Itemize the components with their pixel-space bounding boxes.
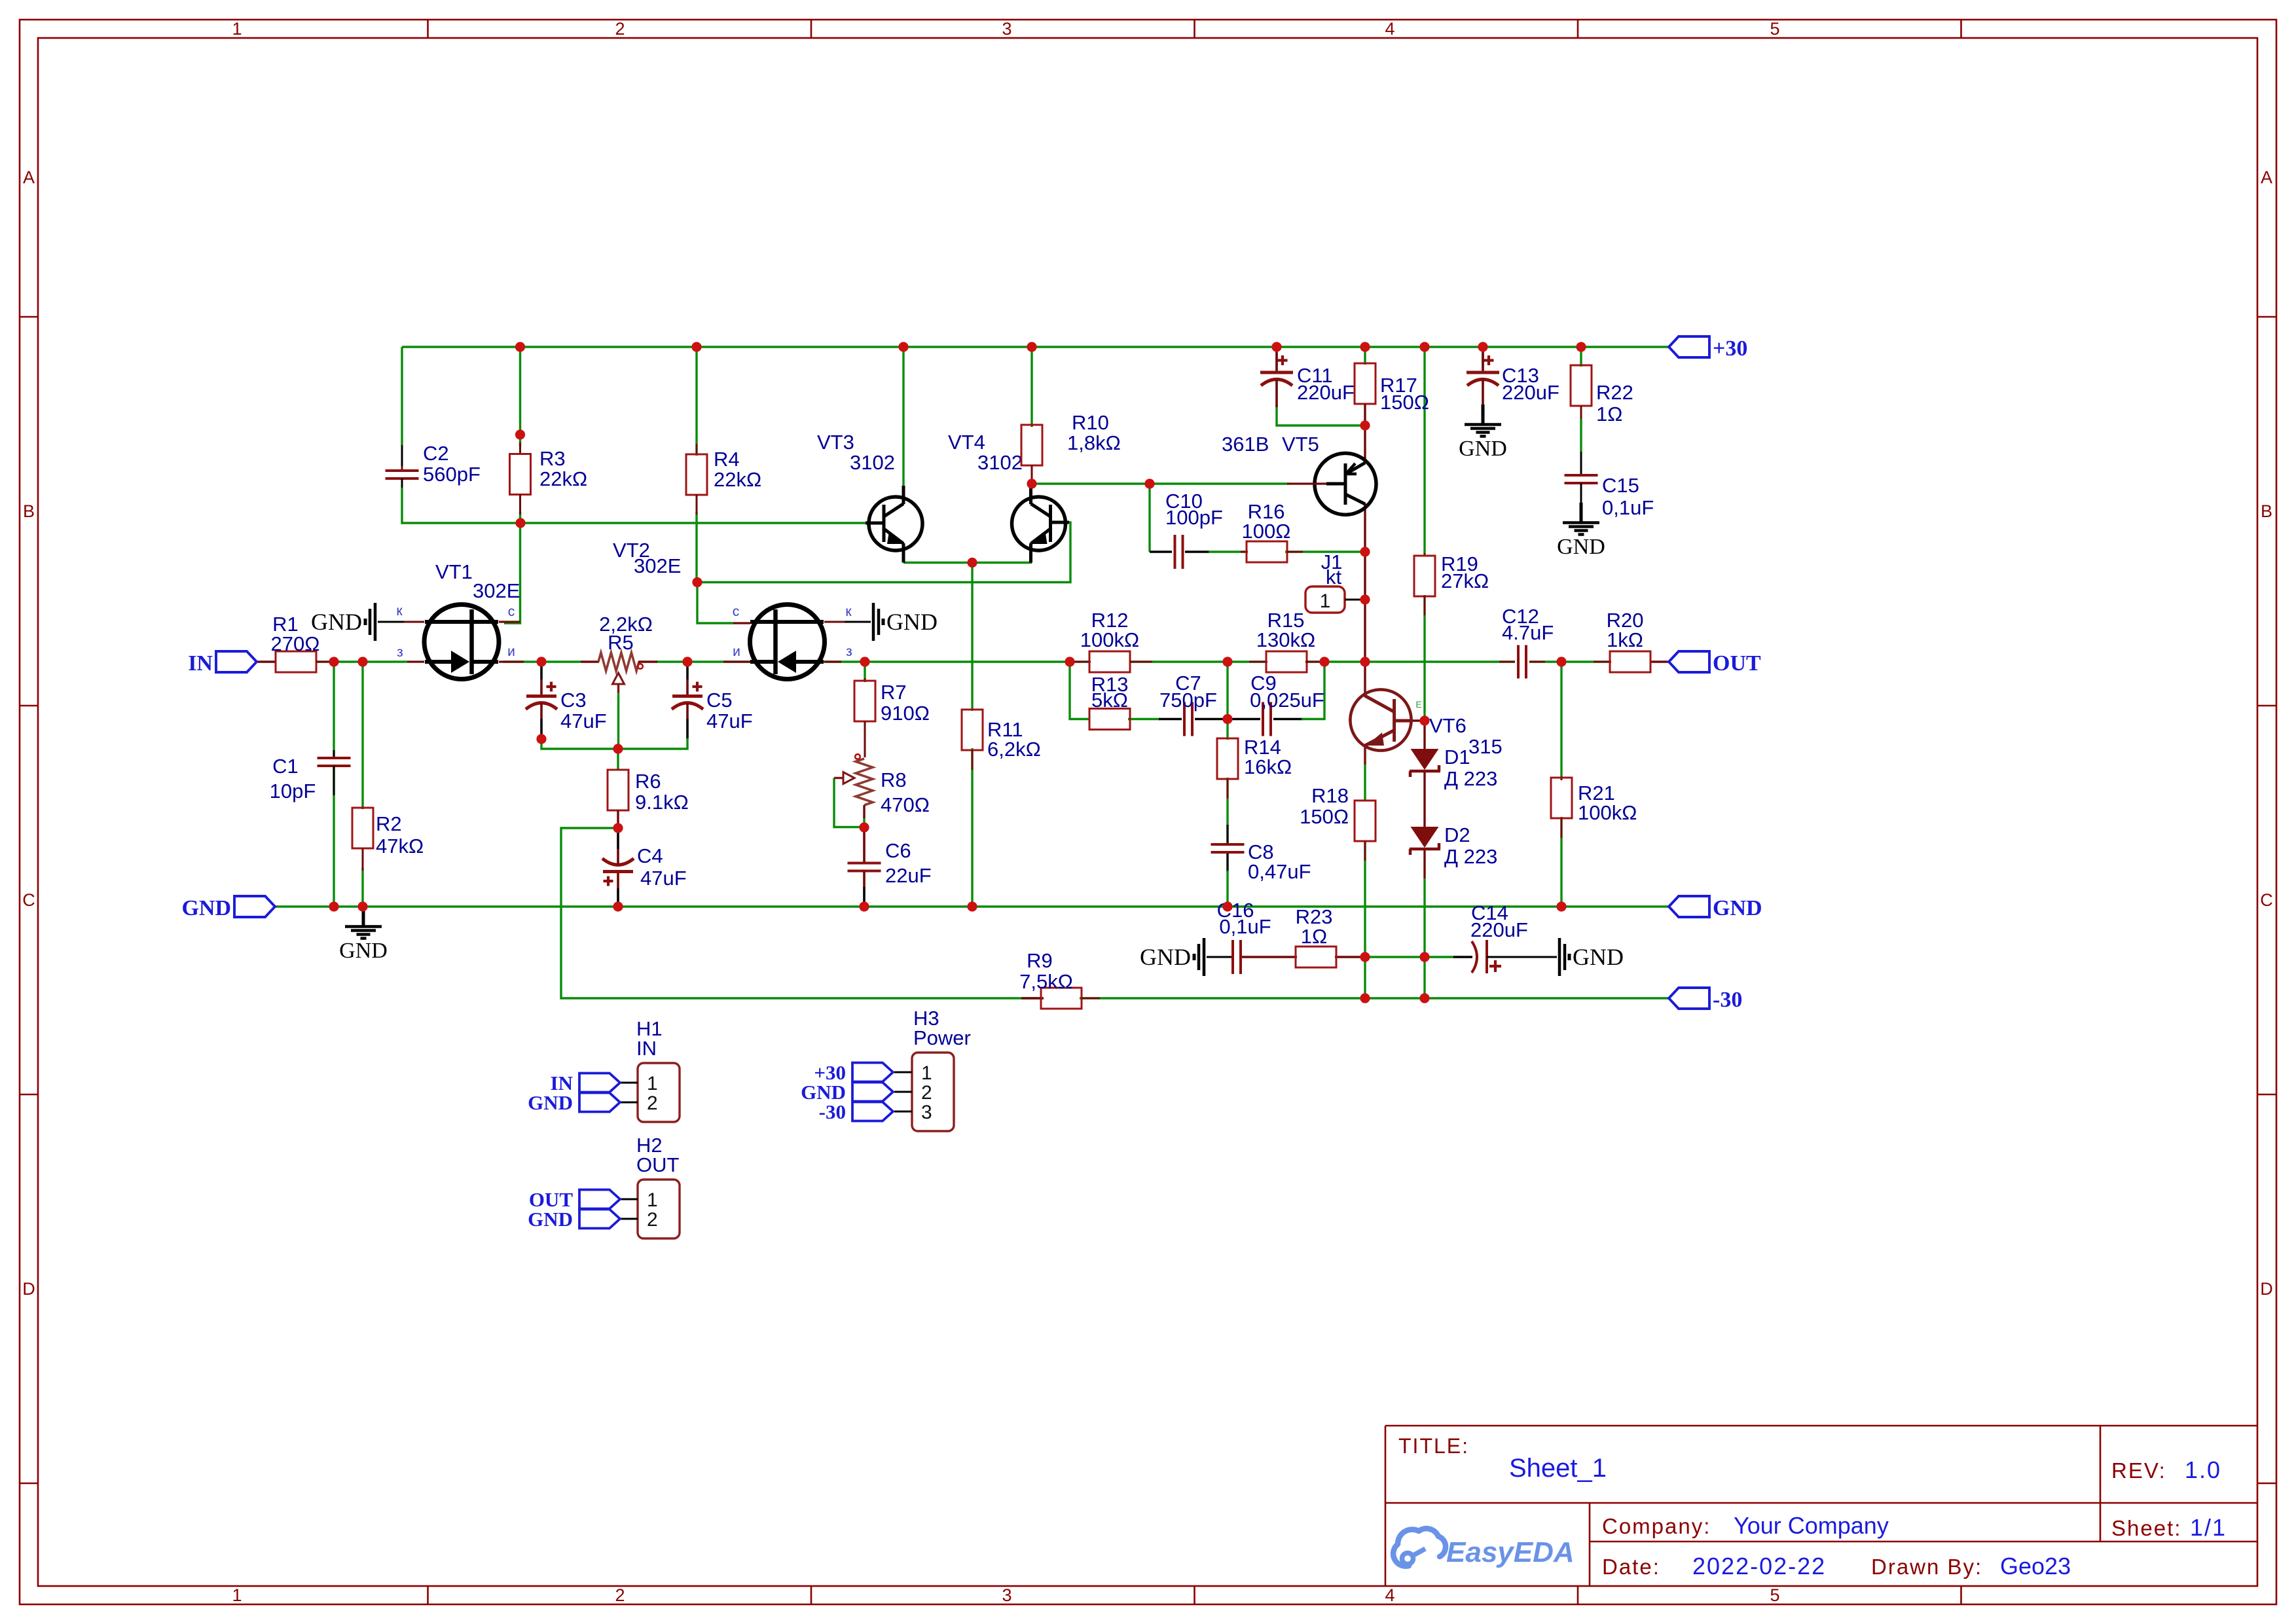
svg-text:C6: C6 [885, 839, 911, 862]
wire R22 to C15 [1580, 419, 1582, 452]
net flag IN [216, 651, 257, 672]
junction at (1950,530) [1271, 342, 1281, 352]
svg-text:3102: 3102 [850, 451, 895, 474]
svg-text:1: 1 [232, 1585, 242, 1605]
svg-text:C4: C4 [637, 844, 663, 867]
EasyEDA logo [1393, 1528, 1575, 1568]
port flag OUT of H2 [579, 1190, 620, 1209]
svg-text:Power: Power [913, 1026, 971, 1049]
svg-text:IN: IN [636, 1037, 657, 1060]
svg-text:4.7uF: 4.7uF [1502, 621, 1554, 644]
wire R21 top [1560, 662, 1562, 779]
svg-text:c: c [733, 604, 740, 619]
wire R6 bottom junction [617, 810, 619, 828]
port flag +30 of H3 [852, 1063, 893, 1082]
svg-text:GND: GND [339, 939, 388, 963]
capacitor C11 [1260, 352, 1355, 407]
svg-text:560pF: 560pF [423, 463, 481, 486]
capacitor C6 [848, 827, 932, 902]
junction at (1485,1385) [967, 901, 977, 911]
junction at (510,1385) [329, 901, 338, 911]
wire C5 bottom [618, 738, 687, 749]
wire C8 top black stub [1226, 825, 1228, 843]
junction at (554,1011) [357, 657, 367, 666]
svg-text:-30: -30 [1713, 988, 1742, 1012]
svg-text:1: 1 [1320, 590, 1331, 612]
capacitor C8 [1211, 840, 1311, 883]
wire D2 bottom pin [1423, 850, 1425, 878]
svg-text:R22: R22 [1596, 381, 1633, 404]
svg-text:и: и [507, 644, 515, 659]
wire VT4 collector to VT5 base [1032, 482, 1288, 484]
resistor R22 [1571, 365, 1633, 425]
svg-text:750pF: 750pF [1159, 689, 1217, 712]
transistor VT1 [396, 560, 524, 679]
ground symbol under C13 [1482, 405, 1485, 424]
svg-text:EasyEDA: EasyEDA [1446, 1536, 1575, 1568]
svg-text:C: C [2260, 890, 2273, 910]
svg-text:22uF: 22uF [885, 864, 932, 887]
port flag IN of H1 [579, 1074, 620, 1092]
svg-text:GND: GND [181, 896, 231, 920]
svg-text:c: c [508, 604, 515, 619]
junction at (794.5,530) [515, 342, 525, 352]
wire C8 bottom [1226, 871, 1228, 907]
svg-text:C: C [22, 890, 35, 910]
svg-text:и: и [733, 644, 740, 659]
capacitor C16 [1217, 899, 1271, 974]
junction at (2085,650) [1360, 420, 1370, 430]
wire R16 to VT5 collector [1285, 550, 1365, 552]
wire C1 bottom [333, 766, 335, 907]
junction at (1875,1098.5) [1222, 714, 1232, 724]
junction at (1875,1011) [1222, 657, 1232, 666]
ground flag at C14 [1531, 956, 1557, 958]
svg-text:3: 3 [921, 1102, 932, 1123]
wire VT2 gate segment [822, 660, 1089, 662]
wire C10 branch [1148, 484, 1150, 552]
svg-text:GND: GND [886, 609, 938, 635]
resistor R11 [962, 709, 1041, 770]
svg-text:A: A [2261, 168, 2272, 187]
wire VT1 source segment [503, 660, 581, 662]
junction at (1320,1264) [859, 822, 869, 832]
header H1 [638, 1063, 680, 1122]
svg-text:OUT: OUT [1713, 651, 1761, 676]
svg-text:3: 3 [1002, 19, 1011, 39]
net flag GND left [234, 896, 275, 917]
svg-text:5: 5 [1770, 1585, 1779, 1605]
junction at (944,1144) [613, 744, 623, 753]
wire VT5 emitter up [1364, 425, 1366, 463]
resistor R23 [1296, 905, 1336, 967]
svg-text:R8: R8 [881, 768, 907, 791]
svg-text:D1: D1 [1444, 746, 1470, 768]
wire R8 to C6 [863, 817, 865, 827]
resistor R6 [608, 770, 689, 825]
wire C11 bottom to R17 bottom [1277, 405, 1365, 425]
resistor R2 [352, 806, 424, 871]
capacitor C5 [672, 666, 753, 738]
junction at (1756,739) [1144, 478, 1154, 488]
svg-text:1: 1 [232, 19, 242, 39]
svg-text:5: 5 [1770, 19, 1779, 39]
junction at (1321,1011) [860, 657, 869, 666]
wire R21 bottom [1560, 817, 1562, 907]
junction at (2023,1011) [1319, 657, 1329, 666]
wire R17 top feed [1364, 347, 1366, 365]
wire R23 to C14 junction [1365, 956, 1425, 958]
svg-text:Your Company: Your Company [1734, 1512, 1889, 1539]
resistor R18 [1300, 784, 1376, 861]
wire R12 to R15 [1129, 660, 1267, 662]
junction at (2085,1462) [1360, 952, 1370, 962]
svg-text:1: 1 [647, 1189, 658, 1211]
svg-text:6,2kΩ: 6,2kΩ [987, 738, 1041, 761]
wire C13 top feed [1482, 347, 1484, 369]
wire R19 column [1423, 347, 1425, 554]
wire C11 top feed [1275, 347, 1277, 369]
wire GND rail [275, 905, 1669, 907]
svg-text:D: D [2260, 1279, 2273, 1299]
svg-text:220uF: 220uF [1297, 381, 1355, 404]
capacitor C9 [1250, 672, 1324, 736]
net flag -30 [1669, 988, 1709, 1009]
wire VT5 collector down [1364, 503, 1366, 662]
svg-text:1: 1 [647, 1073, 658, 1094]
junction at (1634,1011) [1065, 657, 1074, 666]
svg-text:2: 2 [921, 1082, 932, 1104]
resistor R15 [1249, 609, 1324, 672]
svg-text:D: D [22, 1279, 35, 1299]
svg-text:з: з [846, 644, 852, 659]
svg-text:Sheet_1: Sheet_1 [1509, 1454, 1607, 1483]
wire R19 bottom to VT6 base [1423, 595, 1425, 721]
svg-text:47uF: 47uF [560, 710, 607, 732]
svg-text:Д 223: Д 223 [1444, 845, 1497, 868]
junction at (2385,1011) [1556, 657, 1566, 666]
svg-text:0,47uF: 0,47uF [1248, 860, 1311, 883]
wire D2 bottom [1423, 878, 1425, 998]
wire R22 top feed [1580, 347, 1582, 367]
svg-text:C1: C1 [272, 755, 299, 778]
wire VT6 collector [1364, 662, 1366, 695]
svg-text:315: 315 [1468, 735, 1503, 758]
svg-text:1,8kΩ: 1,8kΩ [1067, 431, 1121, 454]
resistor R12 [1070, 609, 1152, 672]
wire C9 right black [1273, 718, 1303, 720]
wire +30 rail [402, 346, 1669, 348]
wire R4 top feed [695, 347, 697, 456]
svg-text:OUT: OUT [636, 1153, 680, 1176]
ground symbol under C15 [1580, 503, 1583, 522]
svg-text:470Ω: 470Ω [881, 793, 930, 816]
svg-text:GND: GND [1557, 535, 1605, 559]
svg-text:130kΩ: 130kΩ [1256, 628, 1315, 651]
junction at (2415,530) [1576, 342, 1586, 352]
wire R18 bottom [1364, 841, 1366, 998]
svg-text:10pF: 10pF [270, 780, 316, 803]
junction at (510,1011) [329, 657, 338, 666]
capacitor C2 [386, 442, 481, 488]
resistor R9 [1019, 949, 1100, 1009]
svg-text:Drawn By:: Drawn By: [1871, 1555, 1982, 1579]
potentiometer R5 [581, 613, 657, 693]
svg-text:B: B [2261, 501, 2272, 521]
svg-text:E: E [1415, 699, 1421, 710]
capacitor C15 [1565, 452, 1654, 519]
wire C1 top feed [333, 662, 335, 759]
junction at (1380,530) [898, 342, 908, 352]
svg-text:100Ω: 100Ω [1242, 520, 1291, 543]
capacitor C10 [1165, 490, 1223, 569]
svg-text:220uF: 220uF [1470, 918, 1528, 941]
svg-text:270Ω: 270Ω [271, 632, 320, 655]
svg-text:з: з [397, 645, 403, 660]
wire R13 right [1128, 718, 1160, 720]
svg-text:1Ω: 1Ω [1301, 925, 1327, 948]
svg-text:3: 3 [1002, 1585, 1011, 1605]
junction at (1065,889.5) [692, 577, 702, 587]
capacitor C7 [1159, 672, 1217, 736]
junction at (1064,530) [691, 342, 701, 352]
wire R2 bottom [361, 868, 363, 907]
svg-text:Date:: Date: [1602, 1555, 1660, 1579]
svg-text:GND: GND [528, 1091, 573, 1114]
svg-text:VT1: VT1 [435, 560, 473, 583]
wire VT3 collector feed [902, 347, 904, 486]
wire R2 top feed [361, 662, 363, 809]
wire R9 left pin [1021, 997, 1044, 999]
title block text [1398, 1434, 2227, 1579]
svg-text:910Ω: 910Ω [881, 702, 930, 725]
wire R4 bottom [695, 512, 697, 583]
svg-text:A: A [23, 168, 35, 187]
capacitor C13 [1467, 352, 1559, 407]
svg-text:1: 1 [921, 1062, 932, 1084]
svg-text:GND: GND [1713, 896, 1762, 920]
svg-text:kt: kt [1326, 566, 1342, 588]
svg-text:R4: R4 [714, 448, 740, 471]
junction at (2176,1101) [1419, 715, 1429, 725]
net flag OUT [1669, 651, 1709, 672]
svg-text:C2: C2 [423, 442, 449, 465]
port flag GND of H2 [579, 1210, 620, 1229]
diode D1 [1410, 746, 1497, 790]
svg-text:GND: GND [311, 609, 362, 635]
wire feedback loop to -30 [561, 828, 1042, 998]
svg-text:2: 2 [615, 19, 625, 39]
svg-text:100kΩ: 100kΩ [1578, 801, 1637, 824]
wire VT6 base link [1412, 719, 1425, 721]
wire C10 left black [1150, 550, 1172, 552]
header H3 [912, 1053, 954, 1131]
wire R15 to C12 [1305, 660, 1515, 662]
svg-text:GND: GND [1140, 944, 1191, 970]
ground symbol under R2 [362, 907, 365, 926]
net flag GND right [1669, 896, 1709, 917]
svg-text:5kΩ: 5kΩ [1091, 689, 1128, 712]
wire C2 bottom to VT3 base [402, 488, 866, 523]
svg-text:C3: C3 [560, 689, 587, 712]
trimmer R8 [834, 754, 930, 818]
junction at (2085,1011) [1360, 657, 1370, 666]
transistor VT2 [613, 539, 852, 679]
junction at (827,1129) [536, 734, 546, 744]
svg-text:47kΩ: 47kΩ [376, 835, 424, 857]
svg-text:100pF: 100pF [1165, 506, 1223, 529]
diode D2 [1410, 823, 1497, 868]
svg-text:Geo23: Geo23 [2000, 1553, 2071, 1579]
capacitor C12 [1499, 605, 1554, 679]
svg-text:100kΩ: 100kΩ [1080, 628, 1139, 651]
svg-text:Sheet:: Sheet: [2111, 1516, 2181, 1540]
junction at (2085,1525) [1360, 993, 1370, 1003]
wire center junction to C9 [1228, 718, 1260, 720]
junction at (2085,843) [1360, 547, 1370, 556]
svg-text:4: 4 [1385, 1585, 1394, 1605]
wire R11 top [971, 563, 973, 711]
svg-text:Д 223: Д 223 [1444, 767, 1497, 790]
junction at (2176,1525) [1419, 993, 1429, 1003]
ground flag at C16 [1207, 956, 1233, 958]
resistor R14 [1217, 736, 1292, 799]
junction at (2085,916) [1360, 594, 1370, 604]
svg-text:TITLE:: TITLE: [1398, 1434, 1469, 1458]
svg-text:27kΩ: 27kΩ [1441, 569, 1489, 592]
svg-text:IN: IN [188, 651, 213, 676]
svg-text:B: B [23, 501, 35, 521]
svg-text:220uF: 220uF [1502, 381, 1559, 404]
svg-text:302E: 302E [473, 579, 520, 602]
wire VT2 drain riser [697, 583, 733, 624]
junction at (944,1385) [613, 901, 623, 911]
wire R10 top feed [1030, 347, 1032, 426]
svg-text:VT3: VT3 [817, 431, 854, 454]
svg-text:2: 2 [647, 1209, 658, 1231]
wire C9 to R15 right column [1302, 662, 1324, 719]
transistor VT4 [948, 431, 1069, 563]
junction at (944,1265) [613, 823, 623, 833]
wire C14 left [1425, 956, 1455, 958]
wire IN to VT1 gate [316, 660, 407, 662]
svg-text:22kΩ: 22kΩ [539, 467, 587, 490]
svg-text:GND: GND [1573, 944, 1624, 970]
wire C2 top feed [401, 347, 403, 445]
wire C8 bottom black stub [1226, 854, 1228, 872]
svg-text:R9: R9 [1027, 949, 1053, 972]
svg-text:2022-02-22: 2022-02-22 [1692, 1553, 1826, 1579]
wire C12 to R20 [1529, 660, 1611, 662]
svg-text:22kΩ: 22kΩ [714, 468, 761, 491]
resistor R19 [1414, 552, 1489, 615]
svg-text:3102: 3102 [977, 451, 1023, 474]
svg-text:1/1: 1/1 [2190, 1514, 2227, 1541]
resistor R17 [1355, 363, 1429, 424]
svg-text:R3: R3 [539, 447, 566, 470]
wire C10 to R16 [1209, 550, 1247, 552]
resistor R7 [854, 678, 930, 757]
wire R23 line C16 side [1242, 956, 1297, 958]
junction at (1320,1385) [859, 901, 869, 911]
wire VT6 emitter to R18 [1364, 745, 1366, 801]
junction at (1485,859.5) [967, 558, 977, 568]
svg-text:к: к [845, 604, 852, 619]
resistor R4 [686, 444, 761, 514]
connection pad J1 [1305, 550, 1365, 613]
svg-text:+30: +30 [1713, 336, 1747, 361]
junction at (2176,530) [1419, 342, 1429, 352]
junction at (2265,530) [1478, 342, 1487, 352]
wire R8 wiper loop [834, 778, 864, 827]
svg-text:R2: R2 [376, 812, 402, 835]
svg-text:361B: 361B [1222, 433, 1269, 456]
svg-text:16kΩ: 16kΩ [1244, 755, 1292, 778]
svg-text:0,1uF: 0,1uF [1219, 915, 1271, 938]
svg-text:7,5kΩ: 7,5kΩ [1019, 970, 1073, 993]
svg-text:REV:: REV: [2111, 1458, 2166, 1483]
junction at (1576,739) [1027, 478, 1036, 488]
svg-text:0,1uF: 0,1uF [1602, 496, 1654, 519]
svg-text:GND: GND [528, 1208, 573, 1231]
svg-text:R6: R6 [635, 770, 661, 793]
svg-text:9.1kΩ: 9.1kΩ [635, 791, 689, 814]
wire C3 bottom [541, 738, 618, 749]
transistor VT5 [1222, 433, 1376, 514]
svg-text:4: 4 [1385, 19, 1394, 39]
svg-text:Company:: Company: [1602, 1514, 1711, 1538]
svg-text:0,025uF: 0,025uF [1250, 689, 1324, 712]
svg-text:VT4: VT4 [948, 431, 985, 454]
port flag GND of H3 [852, 1083, 893, 1102]
junction at (2176,1462) [1419, 952, 1429, 962]
wire R3 top feed [519, 347, 521, 446]
transistor VT6 [1350, 681, 1502, 765]
wire minus30 rail [1080, 997, 1669, 999]
junction at (554,1385) [357, 901, 367, 911]
wire R12 R13 left column [1070, 662, 1090, 719]
wire C10 right black [1185, 550, 1210, 552]
svg-text:1.0: 1.0 [2185, 1456, 2221, 1483]
wire VT2 drain to VT4 base [697, 522, 1070, 583]
wire R23 right pin [1335, 956, 1365, 958]
wire R11 bottom [971, 748, 973, 907]
junction at (2085,530) [1360, 342, 1370, 352]
wire R5 to VT2 source [657, 660, 754, 662]
wire R14 bottom to C8 [1226, 778, 1228, 826]
header H2 [638, 1180, 680, 1238]
wire R14 column top [1226, 662, 1228, 740]
svg-text:R18: R18 [1311, 784, 1349, 807]
wire D1-D2 link [1423, 772, 1425, 828]
case ground of VT1 [378, 621, 404, 623]
port flag -30 of H3 [852, 1102, 893, 1121]
svg-text:GND: GND [1459, 437, 1507, 461]
svg-text:150Ω: 150Ω [1380, 391, 1429, 414]
net flag +30 [1669, 336, 1709, 357]
wire C7 to center junction [1195, 718, 1228, 720]
junction at (1050,1011) [682, 657, 692, 666]
svg-text:VT6: VT6 [1429, 714, 1467, 737]
junction at (827,1011) [536, 657, 546, 666]
transistor VT3 [817, 431, 922, 563]
resistor R3 [510, 442, 588, 514]
capacitor C1 [270, 750, 351, 803]
wire C14 left black stub [1453, 956, 1472, 958]
svg-text:D2: D2 [1444, 823, 1470, 846]
wire diode chain top [1423, 721, 1425, 750]
wire R6 top [617, 749, 619, 770]
